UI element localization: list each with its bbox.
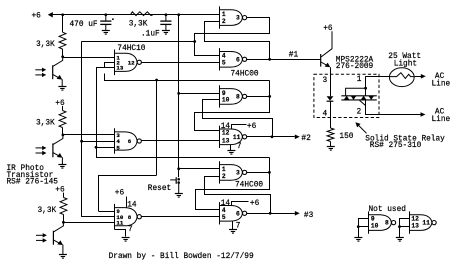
svg-text:Drawn by - Bill Bowden -12/7/9: Drawn by - Bill Bowden -12/7/99	[109, 253, 254, 261]
capacitor C1 470uF	[100, 15, 114, 31]
node PT2 collector	[62, 134, 65, 137]
wire U3b pin14 +6	[232, 202, 249, 206]
wire Q1 emitter to SSR pin3	[330, 67, 332, 96]
node E.out	[268, 171, 271, 174]
wire A.out bus x=81.6	[81, 42, 83, 217]
svg-text:+6: +6	[32, 12, 42, 20]
svg-text:8: 8	[236, 93, 240, 100]
wire A.out feedback y=41.5	[82, 41, 195, 43]
IR arrows into Q3	[36, 146, 47, 156]
svg-text:RS# 275-310: RS# 275-310	[370, 142, 422, 150]
svg-text:13: 13	[222, 137, 230, 144]
wire U3d inputs tied to ground	[400, 219, 410, 238]
svg-text:11: 11	[116, 219, 123, 226]
wire PT2 to U1b pin3	[63, 134, 115, 136]
wire C.out to U1c pin9	[99, 176, 157, 212]
SSR internal LED	[327, 96, 334, 100]
wire #2 output	[247, 136, 295, 138]
wire SSR pin1 to light	[366, 76, 390, 78]
wire reset to U2c pin9	[179, 93, 220, 95]
node U3d tie	[398, 225, 401, 228]
node reset-C9	[177, 92, 180, 95]
svg-text:5: 5	[222, 214, 226, 221]
svg-text:#3: #3	[304, 212, 314, 220]
ground U2d pin7	[227, 150, 235, 152]
74HC00 gate U2b pins 4,5->6	[220, 48, 247, 70]
wire C.out bus x=156.6	[156, 80, 158, 175]
arrow AC line 2	[421, 112, 426, 117]
svg-text:2: 2	[357, 108, 362, 116]
ground U1c pin7	[122, 237, 130, 239]
svg-text:6: 6	[128, 138, 132, 145]
svg-text:7: 7	[237, 143, 242, 151]
svg-text:74HC00: 74HC00	[231, 70, 259, 78]
wire U1c pin14 stub	[126, 197, 128, 208]
IR phototransistor Q3	[53, 135, 63, 165]
ground reset	[175, 193, 183, 195]
callout arrow Solid State Relay	[358, 125, 367, 134]
arrow +6 rail	[48, 12, 53, 17]
wire U3c inputs tied to ground	[359, 219, 369, 238]
capacitor C2 .1uF	[160, 15, 171, 31]
wire #3 output	[247, 213, 295, 215]
74HC00 gate U3b pins 4,5->6	[220, 202, 247, 224]
svg-text:4: 4	[323, 111, 328, 119]
wire U1a pin2 tie	[105, 63, 115, 68]
wire R5 to ground	[330, 142, 332, 147]
wire +6/RC rail y=15	[52, 14, 220, 16]
wire R3 top stub	[63, 193, 65, 198]
wire E.out cross to F.in4	[196, 158, 270, 210]
node E.out net pin5	[95, 146, 98, 149]
IR arrows into Q4	[36, 233, 47, 243]
wire R3 bottom stub	[63, 215, 65, 223]
node rail-.1uF	[165, 13, 168, 16]
svg-text:+6: +6	[323, 25, 333, 33]
svg-text:RS# 276-145: RS# 276-145	[7, 179, 59, 187]
svg-text:1: 1	[222, 166, 226, 173]
wire R1 top stub	[62, 15, 64, 32]
svg-text:3: 3	[323, 77, 328, 85]
svg-text:Line: Line	[432, 80, 451, 88]
svg-text:10: 10	[371, 223, 379, 230]
wire A.out cross to B.in4	[195, 18, 270, 56]
svg-text:74HC10: 74HC10	[117, 45, 145, 53]
node C.out	[268, 95, 271, 98]
wire U1a pin13	[96, 67, 114, 69]
svg-text:11: 11	[422, 220, 430, 227]
wire B.out cross to A.in2	[205, 22, 270, 60]
svg-text:74HC00: 74HC00	[235, 182, 263, 190]
wire U1b out to U2d pin13	[142, 140, 220, 142]
svg-text:#1: #1	[289, 51, 299, 59]
svg-text:11: 11	[233, 134, 241, 141]
74HC10 gate U1c pins 9,10,11->8	[114, 204, 141, 230]
SSR triac	[341, 88, 377, 106]
svg-text:#2: #2	[301, 135, 311, 143]
74HC00 gate U3d pins 12,13->11 not used	[409, 211, 436, 233]
wire U1b pin5	[96, 147, 114, 149]
resistor R5 150	[327, 128, 334, 142]
svg-text:13: 13	[411, 223, 419, 230]
wire SSR pin1 vertical	[365, 76, 367, 96]
svg-text:150: 150	[339, 133, 353, 141]
lamp 25 watt	[389, 68, 414, 87]
svg-text:276-2009: 276-2009	[336, 63, 374, 71]
wire U1b pin4 from A.out bus	[82, 141, 115, 143]
svg-text:3: 3	[236, 15, 240, 22]
svg-text:Line: Line	[432, 116, 451, 124]
wire U1c pin9	[99, 211, 115, 213]
node A.out bus T	[80, 140, 83, 143]
node rail-470uF	[104, 13, 107, 16]
svg-text:3,3K: 3,3K	[36, 120, 55, 128]
svg-text:+6: +6	[115, 189, 125, 197]
svg-text:3,3K: 3,3K	[38, 207, 57, 215]
node U3c tie	[357, 225, 360, 228]
wire net C.out y=80	[105, 74, 270, 81]
ground U3d	[396, 237, 404, 239]
svg-text:3,3K: 3,3K	[36, 41, 55, 49]
node reset-E1	[177, 167, 180, 170]
svg-text:1: 1	[357, 76, 362, 84]
svg-text:.1uF: .1uF	[141, 31, 160, 39]
solid state relay dashed box	[314, 74, 379, 117]
wire reset to U3a pin1	[179, 168, 220, 170]
resistor R4 3.3K horizontal	[130, 12, 153, 16]
wire PT1 to U1a pin1	[63, 57, 115, 59]
svg-text:2: 2	[222, 173, 226, 180]
wire R2 top stub	[62, 106, 64, 111]
svg-text:+6: +6	[55, 100, 65, 108]
svg-text:12: 12	[128, 60, 135, 67]
svg-text:5: 5	[116, 144, 120, 151]
74HC00 gate U2a pins 1,2->3	[220, 6, 247, 28]
arrow #3	[295, 211, 300, 216]
node PT1 collector	[61, 55, 64, 58]
ground U3b pin7	[229, 229, 237, 231]
wire U1a out to U2b pin5	[142, 62, 220, 64]
svg-text:3,3K: 3,3K	[129, 21, 148, 29]
node rail-R1	[61, 13, 64, 16]
74HC00 gate U3c pins 9,10->8 not used	[369, 211, 396, 233]
svg-text:14: 14	[221, 200, 231, 208]
pushbutton Reset	[170, 177, 180, 193]
ground PT2 emitter	[58, 164, 66, 166]
resistor R2 3.3K	[59, 111, 66, 128]
wire U2d pin7 ground	[230, 145, 232, 151]
svg-text:10: 10	[222, 97, 230, 104]
wire net E.out y=158	[97, 148, 270, 158]
arrow AC line 1	[421, 74, 426, 79]
wire R2 bottom stub	[62, 128, 64, 135]
IR phototransistor Q4	[53, 222, 63, 254]
wire U1c out to U3b pin5	[141, 216, 220, 218]
node B.out	[268, 58, 271, 61]
wire SSR pin2 to AC line	[366, 100, 422, 115]
ground R5	[327, 146, 335, 148]
ground U3c	[354, 237, 362, 239]
wire C.out cross to D.in12	[195, 81, 270, 131]
ground PT3 emitter	[59, 254, 67, 256]
node F.out	[269, 212, 272, 215]
node rail-resetbus	[177, 13, 180, 16]
wire U1c pin10 from A.out bus	[82, 216, 115, 218]
arrow #2	[295, 135, 300, 140]
74HC00 gate U2d pins 12,13->11	[220, 126, 247, 148]
wire #1 net to Q1 base	[247, 59, 321, 61]
wire reset bus x=178.7	[178, 15, 180, 177]
svg-text:Not used: Not used	[369, 206, 406, 214]
wire PT3 to U1c pin11	[63, 222, 114, 224]
wire net E.out vertical x=96	[96, 67, 98, 147]
svg-text:+6: +6	[247, 123, 257, 131]
74HC00 gate U2c pins 9,10->8	[220, 85, 247, 107]
74HC10 gate U1a pins 1,2,13->12	[114, 50, 141, 76]
wire SSR pin4 to 150 ohm	[330, 101, 332, 128]
node triac MT2	[364, 87, 367, 90]
svg-text:2: 2	[222, 18, 226, 25]
resistor R1 3.3K	[59, 32, 66, 49]
svg-text:Reset: Reset	[148, 185, 171, 193]
74HC00 gate U3a pins 1,2->3	[220, 161, 247, 183]
resistor R3 3.3K	[60, 198, 67, 215]
wire U3b pin7 ground	[232, 221, 234, 229]
svg-text:470 uF: 470 uF	[70, 21, 98, 29]
IR phototransistor Q2	[53, 57, 63, 87]
ground PT1 emitter	[58, 86, 66, 88]
svg-text:6: 6	[236, 210, 240, 217]
transistor Q1 MPS2222A	[321, 31, 332, 67]
node PT3 collector	[62, 221, 65, 224]
wire E.out	[247, 172, 270, 174]
wire C.out	[247, 96, 270, 98]
svg-text:5: 5	[222, 60, 226, 67]
wire D.out cross to C.in10	[203, 100, 273, 137]
wire F.out cross to E.in2	[205, 177, 271, 214]
svg-text:8: 8	[128, 214, 132, 221]
svg-text:+6: +6	[250, 200, 260, 208]
wire U1c pin7 to ground	[115, 230, 126, 237]
svg-text:8: 8	[385, 220, 389, 227]
svg-text:13: 13	[116, 64, 123, 71]
svg-text:3: 3	[236, 169, 240, 176]
node D.out	[271, 135, 274, 138]
wire R1 bottom stub	[62, 49, 64, 57]
wire U2d pin14 +6	[232, 125, 247, 129]
74HC10 gate U1b pins 3,4,5->6	[114, 128, 141, 154]
svg-text:14: 14	[221, 123, 231, 131]
wire light to AC line 1	[415, 76, 422, 78]
node A.out junction	[193, 40, 196, 43]
svg-text:Light: Light	[394, 60, 417, 68]
svg-text:7: 7	[128, 226, 133, 234]
svg-text:6: 6	[236, 56, 240, 63]
IR arrows into Q2	[35, 68, 46, 78]
node C.out bus T	[155, 79, 158, 82]
